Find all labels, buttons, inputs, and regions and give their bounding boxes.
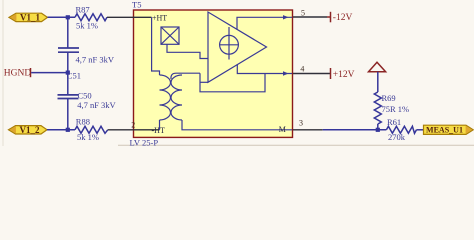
wire V1_2 to R88 [47, 129, 75, 131]
isolation square with X [161, 27, 179, 44]
wire pin 3 to R69/R61 junction [323, 129, 387, 131]
capacitor C50 [58, 94, 79, 96]
wire triangle to R69 [377, 72, 379, 92]
svg-text:R87: R87 [76, 5, 90, 15]
internal wire +HT to primary coil [152, 17, 160, 75]
svg-text:5k 1%: 5k 1% [76, 21, 98, 31]
current source circle [220, 35, 239, 54]
svg-text:M: M [279, 125, 286, 134]
svg-text:3: 3 [299, 119, 303, 128]
svg-text:4,7 nF 3kV: 4,7 nF 3kV [77, 100, 116, 110]
secondary winding (right coil) [171, 75, 182, 120]
svg-text:5: 5 [301, 8, 305, 17]
wire HGND to node [31, 72, 68, 74]
wire op-amp top to pin 5 [237, 17, 292, 29]
wire secondary top to feedback node [171, 73, 200, 79]
wire C50 down to V1_2 net [67, 99, 69, 130]
svg-text:4,7 nF 3kV: 4,7 nF 3kV [76, 54, 115, 64]
pin 4 lead [293, 73, 330, 75]
pin 3 lead [293, 129, 323, 131]
node junction V1_2 [66, 128, 70, 132]
node junction R69 [376, 128, 380, 132]
svg-text:V1_2: V1_2 [20, 125, 40, 135]
component T5 body (LV 25-P box) [134, 10, 293, 137]
wire R88 to T5 pin -HT [108, 129, 134, 131]
wire op-amp output to pin 4 [237, 64, 292, 73]
svg-text:75R 1%: 75R 1% [382, 104, 410, 114]
pin -HT stub [134, 129, 160, 131]
sheet border line left [2, 0, 4, 146]
node junction V1_1 [66, 15, 70, 19]
port V1_1 [9, 13, 48, 21]
svg-text:-HT: -HT [152, 126, 165, 135]
svg-text:2: 2 [131, 120, 135, 129]
svg-text:V1_1: V1_1 [20, 12, 40, 22]
pin +HT stub [134, 16, 152, 18]
wire square to op-amp input [167, 44, 208, 58]
resistor R88 [75, 126, 108, 133]
port MEAS_U1 [424, 125, 474, 134]
svg-text:+12V: +12V [333, 70, 355, 80]
svg-text:HGND: HGND [4, 68, 32, 78]
wire V1_1 to R87 [48, 16, 76, 18]
power port -12V [327, 16, 331, 18]
svg-text:LV 25-P: LV 25-P [130, 138, 159, 146]
pin 5 lead [293, 16, 327, 18]
svg-text:270k: 270k [388, 132, 406, 142]
node junction HGND [66, 71, 70, 75]
svg-text:5k 1%: 5k 1% [77, 132, 99, 142]
op-amp U-internal triangle [208, 12, 267, 82]
resistor R87 [75, 14, 107, 21]
power symbol triangle (VREF) [369, 62, 386, 72]
svg-text:R61: R61 [387, 117, 401, 127]
resistor R61 [386, 126, 416, 133]
wire primary coil to -HT [159, 120, 161, 130]
primary winding (left coil) [160, 75, 171, 120]
sheet border line bottom [118, 144, 474, 146]
wire R61 to port MEAS_U1 [417, 129, 424, 131]
svg-text:4: 4 [300, 64, 304, 73]
wire C51 to HGND node [67, 52, 69, 95]
svg-text:+HT: +HT [152, 14, 167, 23]
wire secondary bottom to M pin [182, 120, 292, 130]
wire R87 to T5 pin +HT [107, 16, 134, 18]
wire feedback to op-amp lower corner [200, 81, 208, 83]
wire junction down to C51 [67, 17, 69, 48]
capacitor C51 [58, 47, 79, 49]
feedback loop wire [200, 73, 265, 92]
svg-text:R69: R69 [382, 93, 396, 103]
svg-text:MEAS_U1: MEAS_U1 [426, 126, 463, 135]
svg-text:-12V: -12V [333, 13, 353, 23]
resistor R69 [374, 92, 381, 124]
power port +12V [330, 68, 332, 79]
svg-text:T5: T5 [132, 0, 141, 10]
wire R69 to junction [377, 124, 379, 130]
port V1_2 [9, 126, 48, 134]
svg-text:R88: R88 [76, 116, 90, 126]
